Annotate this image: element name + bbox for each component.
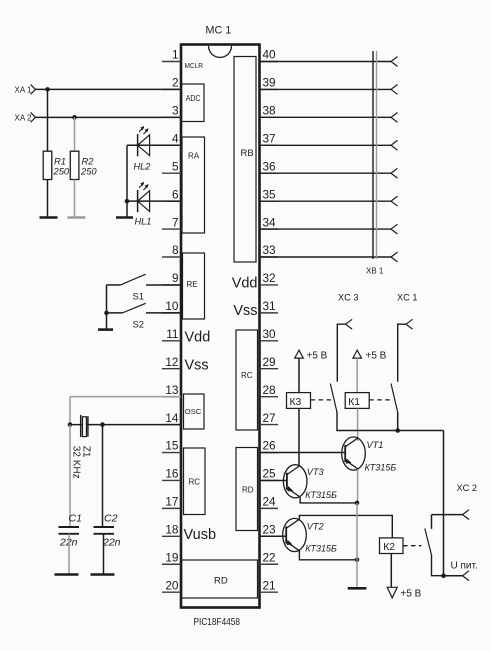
svg-text:21: 21	[263, 578, 276, 592]
svg-text:30: 30	[263, 327, 277, 341]
wire LED rail	[126, 145, 128, 217]
svg-text:31: 31	[263, 299, 276, 313]
svg-text:КТ315Б: КТ315Б	[365, 463, 397, 473]
svg-text:S2: S2	[133, 319, 144, 330]
transistor VT2	[283, 518, 307, 551]
node HL1 junction	[125, 199, 130, 204]
svg-text:К2: К2	[383, 542, 395, 553]
wire S2 right	[146, 312, 181, 314]
pin 37 stub	[260, 144, 279, 146]
wire K3 to VT3 collector	[298, 408, 300, 466]
connector XA2	[31, 112, 36, 122]
ground LED rail	[116, 216, 133, 219]
wire S1 right	[146, 284, 181, 286]
pin 4 stub	[162, 144, 181, 146]
svg-text:Vss: Vss	[233, 303, 257, 319]
pin 26 stub	[260, 452, 279, 454]
svg-text:33: 33	[263, 243, 277, 257]
pin 33 stub	[260, 256, 279, 258]
block RC right	[236, 330, 258, 430]
svg-text:2: 2	[172, 76, 179, 90]
wire VT2 collector	[299, 515, 392, 538]
svg-text:OSC: OSC	[185, 407, 202, 416]
svg-text:16: 16	[165, 467, 179, 481]
wire XC2 left down	[431, 515, 433, 529]
wire VT2 emitter	[299, 550, 357, 560]
svg-text:37: 37	[263, 131, 276, 145]
pin 11 stub	[162, 340, 181, 342]
svg-text:HL2: HL2	[134, 162, 151, 172]
ground emitter rail	[348, 587, 367, 590]
pin 29 stub	[260, 368, 279, 370]
XB1 contact pin 40	[391, 57, 398, 67]
node emitter junction 2	[355, 558, 360, 563]
pin 16 stub	[162, 479, 181, 481]
node crystal left	[68, 422, 73, 427]
IC MC1 top notch	[209, 46, 232, 58]
svg-text:XC 1: XC 1	[397, 293, 417, 303]
svg-text:RD: RD	[214, 576, 228, 587]
wire C2 bottom	[103, 534, 105, 575]
svg-text:Vusb: Vusb	[184, 527, 217, 543]
svg-text:XA 2: XA 2	[15, 114, 32, 123]
switch S1 lever	[121, 274, 146, 285]
svg-text:XC 3: XC 3	[338, 293, 358, 303]
wire pin 40 to XB1	[260, 61, 392, 63]
XB1 contact pin 39	[391, 85, 398, 95]
wire XA2 to pin3	[35, 116, 181, 118]
svg-text:VT1: VT1	[367, 440, 384, 450]
wire C1 rail	[69, 425, 71, 527]
wire VT1 emitter down	[357, 469, 359, 503]
pin 18 stub	[162, 535, 181, 537]
switch S2 lever	[123, 303, 146, 313]
svg-text:C2: C2	[104, 513, 118, 525]
svg-text:32: 32	[263, 271, 276, 285]
svg-text:32 KHz: 32 KHz	[71, 446, 82, 479]
wire Upit	[444, 575, 463, 577]
pin 15 stub	[162, 452, 181, 454]
pin 35 stub	[260, 200, 279, 202]
svg-text:18: 18	[165, 523, 179, 537]
pin 27 stub	[260, 424, 279, 426]
wire emitter rail	[356, 503, 358, 588]
block RE	[183, 253, 205, 319]
crystal Z1 right plate	[87, 416, 89, 436]
svg-text:15: 15	[165, 439, 179, 453]
pin 28 stub	[260, 396, 279, 398]
svg-text:36: 36	[263, 159, 277, 173]
transistor VT1	[342, 437, 366, 470]
wire S2 left	[107, 312, 123, 314]
svg-text:КТ315Б: КТ315Б	[305, 544, 337, 554]
pin 14 stub	[162, 424, 181, 426]
wire +5V to K1	[356, 358, 358, 393]
wire XC2 upper	[432, 514, 463, 516]
ground R2	[68, 216, 86, 219]
relay K1	[345, 393, 369, 409]
svg-text:C1: C1	[69, 513, 82, 525]
wire pin 33 to XB1	[260, 256, 392, 258]
wire XC3 contact down	[337, 412, 444, 431]
connector XA1	[31, 85, 36, 95]
wire pin 35 to XB1	[260, 200, 392, 202]
svg-text:13: 13	[165, 383, 179, 397]
ground R1	[40, 216, 58, 219]
wire R1 top	[47, 89, 49, 151]
pin 21 stub	[260, 591, 279, 593]
pin 32 stub	[260, 284, 279, 286]
wire K2 to +5V	[390, 554, 392, 588]
pin 12 stub	[162, 368, 181, 370]
svg-text:S1: S1	[133, 291, 144, 302]
ground C2	[91, 573, 115, 576]
svg-text:Vdd: Vdd	[185, 330, 211, 346]
wire +5V to K3	[298, 358, 300, 393]
capacitor C1 top plate	[59, 526, 80, 528]
svg-text:26: 26	[263, 439, 277, 453]
contact K1.1 lever	[391, 384, 398, 413]
node S2 junction	[104, 311, 109, 316]
pin 39 stub	[260, 88, 279, 90]
wire C2 rail	[102, 425, 104, 527]
wire R1 bottom	[47, 180, 49, 218]
wire XC1 corner	[398, 324, 406, 382]
pin 23 stub	[260, 535, 279, 537]
pin 30 stub	[260, 340, 279, 342]
XB1 contact pin 34	[391, 224, 398, 234]
connector XC2 lower Upit	[463, 571, 470, 581]
XB1 contact pin 33	[391, 252, 398, 262]
svg-text:VT3: VT3	[307, 467, 325, 477]
wire S1 left	[107, 284, 121, 286]
wire main right vertical	[443, 431, 445, 576]
svg-text:КТ315Б: КТ315Б	[305, 490, 337, 500]
node XA2/R2 junction	[72, 115, 77, 120]
svg-text:19: 19	[165, 550, 178, 564]
connector XC3	[346, 319, 353, 329]
svg-text:28: 28	[263, 383, 277, 397]
svg-text:250: 250	[80, 166, 97, 177]
pin 13 stub	[162, 396, 181, 398]
pin 5 stub	[162, 172, 181, 174]
relay K2	[380, 538, 404, 554]
wire pin 37 to XB1	[260, 144, 392, 146]
svg-text:+5 В: +5 В	[401, 589, 422, 600]
capacitor C2 bottom plate	[94, 533, 115, 535]
pin 20 stub	[162, 591, 181, 593]
svg-text:Vss: Vss	[185, 358, 209, 374]
svg-text:250: 250	[53, 166, 70, 177]
node emitter junction 1	[355, 501, 360, 506]
resistor R1	[43, 151, 52, 179]
contact K2.1 lever	[425, 529, 432, 556]
svg-text:23: 23	[263, 523, 277, 537]
svg-text:3: 3	[172, 104, 179, 118]
XB1 contact pin 35	[391, 196, 398, 206]
svg-text:VT2: VT2	[307, 521, 324, 531]
block RB	[234, 57, 256, 263]
wire pin 38 to XB1	[260, 116, 392, 118]
svg-text:8: 8	[172, 243, 179, 257]
wire XA1 to pin2	[35, 88, 181, 90]
ground C1	[55, 573, 79, 576]
wire pin 39 to XB1	[260, 88, 392, 90]
block RC left	[184, 448, 206, 515]
LED HL2	[137, 134, 139, 156]
capacitor C2 top plate	[94, 526, 115, 528]
block RA	[182, 137, 205, 233]
block OSC	[184, 394, 205, 429]
crystal Z1 body	[83, 417, 87, 437]
svg-text:27: 27	[263, 411, 276, 425]
connector XC1	[406, 319, 413, 329]
wire K1 to VT1 collector	[357, 408, 359, 441]
dashed link K2	[403, 545, 422, 547]
wire pin4 LED row	[127, 144, 181, 146]
block RD bottom	[182, 560, 258, 598]
wire VT3 emitter	[300, 497, 357, 503]
svg-text:12: 12	[165, 355, 178, 369]
svg-text:22n: 22n	[102, 537, 121, 549]
dashed link K1	[369, 399, 392, 401]
svg-text:RB: RB	[241, 148, 254, 159]
resistor R2	[70, 151, 79, 179]
pin 2 stub	[162, 88, 181, 90]
LED HL1	[137, 190, 139, 212]
pin 25 stub	[260, 479, 279, 481]
svg-text:5: 5	[172, 159, 179, 173]
svg-text:22: 22	[263, 550, 276, 564]
svg-text:U пит.: U пит.	[451, 561, 478, 572]
pin 9 stub	[162, 284, 181, 286]
svg-text:29: 29	[263, 355, 276, 369]
svg-text:6: 6	[172, 187, 179, 201]
svg-text:7: 7	[172, 215, 179, 229]
svg-text:10: 10	[165, 299, 179, 313]
svg-text:HL1: HL1	[135, 217, 152, 227]
svg-text:MC 1: MC 1	[206, 25, 232, 37]
XB1 contact pin 37	[391, 140, 398, 150]
wire pin13 osc	[70, 396, 181, 398]
pin 8 stub	[162, 256, 181, 258]
svg-text:34: 34	[263, 215, 277, 229]
pin 40 stub	[260, 61, 279, 63]
connector XB1 bar 2	[376, 51, 378, 259]
svg-text:35: 35	[263, 187, 277, 201]
wire crystal row	[70, 424, 181, 426]
pin 6 stub	[162, 200, 181, 202]
node Upit junction	[441, 573, 446, 578]
capacitor C1 bottom plate	[59, 533, 80, 535]
node crystal right	[100, 422, 105, 427]
svg-text:25: 25	[263, 467, 277, 481]
power +5V K1	[353, 350, 362, 358]
pin 24 stub	[260, 507, 279, 509]
svg-text:PIC18F4458: PIC18F4458	[194, 616, 241, 628]
wire pin6 LED row	[127, 200, 181, 202]
pin 1 stub	[162, 61, 181, 63]
svg-text:1: 1	[172, 48, 179, 62]
svg-text:+5 В: +5 В	[307, 351, 328, 362]
svg-text:4: 4	[172, 131, 179, 145]
svg-text:+5 В: +5 В	[366, 351, 387, 362]
svg-text:11: 11	[166, 327, 178, 341]
node XA1/R1 junction	[45, 87, 50, 92]
wire R2 bottom	[74, 180, 76, 218]
wire C1 bottom	[68, 534, 70, 575]
transistor VT3	[283, 465, 307, 498]
wire R2 top	[74, 117, 76, 151]
pin 38 stub	[260, 116, 279, 118]
svg-text:К3: К3	[290, 397, 302, 408]
power +5V K2 down	[387, 587, 397, 598]
node rail junction	[395, 428, 400, 433]
pin 3 stub	[162, 116, 181, 118]
wire pin25 to VT3 base	[260, 479, 287, 481]
svg-text:XC 2: XC 2	[457, 483, 477, 493]
svg-text:RC: RC	[241, 371, 253, 380]
power +5V K3	[295, 350, 304, 358]
pin 31 stub	[260, 312, 279, 314]
crystal Z1 left plate	[80, 415, 82, 437]
svg-text:9: 9	[172, 271, 179, 285]
svg-text:RC: RC	[189, 478, 201, 487]
svg-text:ADC: ADC	[186, 94, 201, 103]
wire switch rail	[106, 285, 108, 330]
block RD right	[236, 448, 258, 531]
svg-text:40: 40	[263, 48, 277, 62]
pin 10 stub	[162, 312, 181, 314]
pin 19 stub	[162, 563, 181, 565]
svg-text:XA 1: XA 1	[15, 86, 32, 95]
svg-text:XB 1: XB 1	[366, 267, 384, 276]
pin 36 stub	[260, 172, 279, 174]
relay K3	[287, 393, 311, 409]
wire XC3 corner	[337, 324, 345, 382]
svg-text:RA: RA	[188, 152, 200, 161]
wire pin26 to VT1 base	[260, 452, 346, 454]
dashed link K3	[311, 399, 332, 401]
XB1 contact pin 36	[391, 168, 398, 178]
svg-text:RD: RD	[242, 486, 254, 495]
contact K3.1 lever	[330, 384, 337, 413]
connector XC2 upper	[463, 510, 470, 520]
svg-text:24: 24	[263, 495, 277, 509]
svg-text:20: 20	[165, 578, 179, 592]
wire osc left rail	[69, 397, 71, 425]
pin 34 stub	[260, 228, 279, 230]
svg-text:К1: К1	[348, 397, 360, 408]
pin 17 stub	[162, 507, 181, 509]
IC MC1 PIC18F4458 body	[181, 45, 260, 608]
ground switch rail	[98, 328, 113, 331]
block ADC	[182, 84, 204, 122]
wire XC1 contact down	[397, 412, 399, 431]
svg-text:14: 14	[165, 411, 179, 425]
svg-text:RE: RE	[187, 280, 198, 289]
XB1 contact pin 38	[391, 112, 398, 122]
pin 7 stub	[162, 228, 181, 230]
wire pin23 to VT2 base	[260, 535, 287, 537]
connector XB1 bar	[372, 51, 374, 259]
wire pin 34 to XB1	[260, 228, 392, 230]
wire pin 36 to XB1	[260, 172, 392, 174]
wire XC2 contact down	[432, 555, 444, 576]
svg-text:38: 38	[263, 104, 277, 118]
svg-text:39: 39	[263, 76, 276, 90]
pin 22 stub	[260, 563, 279, 565]
svg-text:MCLR: MCLR	[185, 61, 204, 70]
svg-text:17: 17	[165, 495, 178, 509]
svg-text:Vdd: Vdd	[232, 276, 258, 292]
